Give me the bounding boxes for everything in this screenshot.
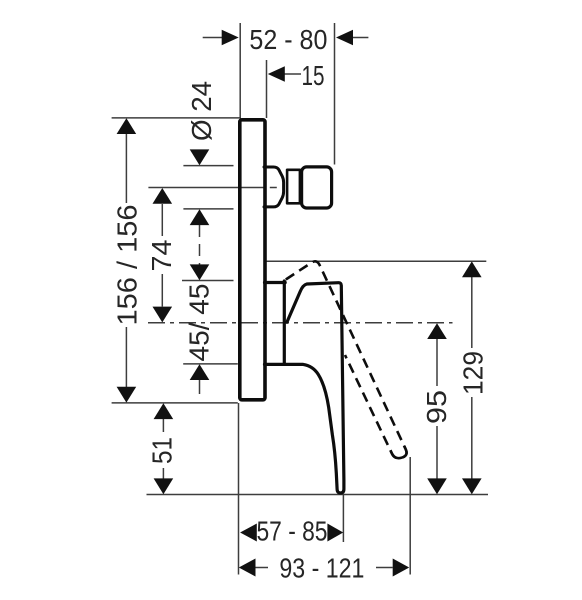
svg-text:74: 74 [146,240,177,272]
svg-text:15: 15 [302,60,325,91]
svg-text:93 - 121: 93 - 121 [279,553,364,584]
svg-text:156 / 156: 156 / 156 [111,205,142,326]
svg-text:129: 129 [457,351,488,395]
svg-text:45/ 45: 45/ 45 [183,284,214,362]
svg-text:52 - 80: 52 - 80 [249,24,327,55]
svg-text:95: 95 [421,390,452,424]
svg-text:51: 51 [147,437,178,464]
svg-text:57 - 85: 57 - 85 [257,516,328,547]
svg-text:Ø 24: Ø 24 [186,81,217,141]
